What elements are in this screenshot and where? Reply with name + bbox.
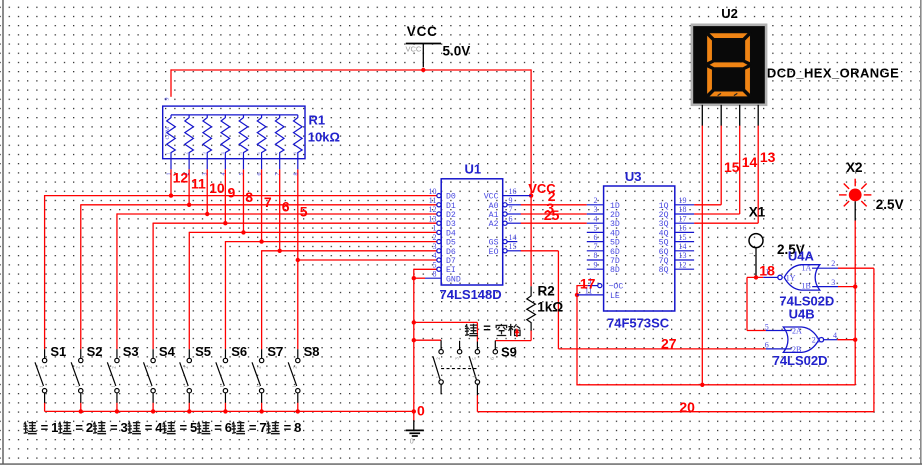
U3 right output stubs: [675, 205, 694, 269]
svg-text:3: 3: [594, 205, 598, 214]
svg-text:14: 14: [509, 233, 517, 242]
U3 left pin numbers: [594, 196, 598, 269]
svg-text:D1: D1: [446, 202, 456, 211]
svg-text:16: 16: [679, 224, 687, 233]
svg-text:7Q: 7Q: [659, 257, 669, 266]
net label 25: [544, 207, 560, 223]
U4A value label 74LS02D: [779, 294, 834, 309]
svg-text:5: 5: [190, 420, 197, 435]
junction U4B output on X2 line: [853, 338, 857, 342]
svg-text:15: 15: [724, 159, 740, 175]
junction display pin1 on bottom bus: [700, 383, 704, 387]
R1 labels: [308, 113, 340, 145]
svg-text:2.5V: 2.5V: [876, 197, 904, 212]
junction U4A 1B on X2 line: [853, 284, 857, 288]
svg-text:D3: D3: [446, 220, 456, 229]
wire net 20: S9 pole to U4A pin2: [477, 268, 874, 412]
svg-text:LE: LE: [610, 292, 620, 301]
junction R1 pin6 to row D5: [259, 239, 263, 243]
junction U1 GND to net0 vertical: [412, 276, 416, 280]
U1 pin16 VCC stub: [503, 195, 531, 197]
svg-text:S4: S4: [159, 344, 176, 359]
U4B pin labels: [765, 323, 837, 354]
svg-text:8: 8: [433, 270, 437, 279]
svg-text:15: 15: [679, 233, 687, 242]
svg-text:13: 13: [760, 149, 776, 165]
svg-text:15: 15: [509, 242, 517, 251]
svg-text:8D: 8D: [610, 266, 620, 275]
resistor R2 1k ohm: [527, 283, 564, 330]
svg-text:12: 12: [429, 205, 437, 214]
R1 pin number 9 (common): [165, 98, 171, 140]
U1 output stubs: [507, 205, 521, 251]
junction U3 LE: [575, 293, 579, 297]
wire net 25: U1 A2 to U3 3D: [521, 222, 587, 224]
svg-text:20: 20: [679, 399, 695, 415]
svg-text:A1: A1: [489, 211, 499, 220]
switch S3 pushbutton: [107, 344, 138, 403]
U1 left pin numbers: [429, 187, 437, 279]
wire net row to U1 D6 from switch S7 column: [262, 250, 437, 252]
svg-text:6: 6: [509, 214, 513, 223]
svg-text:5: 5: [594, 224, 598, 233]
svg-text:1: 1: [433, 224, 437, 233]
junction R1 pin2 to row D1: [187, 203, 191, 207]
svg-text:1: 1: [167, 173, 173, 176]
svg-text:GS: GS: [489, 239, 499, 248]
svg-text:9: 9: [509, 196, 513, 205]
svg-text:6Q: 6Q: [659, 248, 669, 257]
svg-text:2: 2: [86, 420, 93, 435]
svg-text:S8: S8: [304, 344, 320, 359]
wire S8 column vertical: [297, 259, 299, 349]
svg-text:3Q: 3Q: [659, 220, 669, 229]
svg-text:12: 12: [679, 260, 687, 269]
junction U1 pin16 on VCC column: [529, 193, 533, 197]
svg-text:9: 9: [228, 184, 236, 200]
svg-text:16: 16: [509, 187, 517, 196]
wire S3 column vertical: [116, 213, 118, 349]
svg-text:4: 4: [221, 173, 227, 176]
U3 left pin names: [610, 202, 620, 275]
junction R1 pin8 to row D7: [296, 258, 300, 262]
svg-text:1D: 1D: [610, 202, 620, 211]
svg-text:7: 7: [275, 173, 281, 176]
U4B reference label: [789, 306, 815, 321]
wire R1 pin2 pull-up vertical: [188, 169, 190, 205]
svg-text:=: =: [145, 420, 153, 435]
svg-text:1A: 1A: [802, 263, 812, 272]
U3 left input stubs: [587, 205, 604, 269]
wire S7 column vertical: [261, 250, 263, 349]
svg-text:3: 3: [831, 278, 835, 287]
svg-text:D4: D4: [446, 229, 456, 238]
svg-text:D7: D7: [446, 257, 456, 266]
svg-text:4: 4: [433, 251, 437, 260]
net label 5: [300, 203, 308, 219]
svg-text:19: 19: [679, 196, 687, 205]
gate U4B 74LS02D NOR: [766, 327, 837, 352]
switch S5 pushbutton: [180, 344, 211, 403]
U2 reference label: [721, 6, 738, 21]
svg-text:U2: U2: [721, 6, 738, 21]
svg-text:7D: 7D: [610, 257, 620, 266]
svg-text:=: =: [179, 420, 187, 435]
svg-text:13: 13: [679, 251, 687, 260]
svg-text:17: 17: [580, 275, 596, 291]
svg-text:6D: 6D: [610, 248, 620, 257]
wire net 13: U3 3Q to display: [694, 125, 758, 223]
junction R1 pin1 to row D0: [169, 193, 173, 197]
wire net row to U1 D5 from switch S6 column: [225, 241, 436, 243]
U1 value label 74LS148D: [440, 287, 502, 302]
svg-text:6: 6: [282, 199, 290, 215]
resistor network R1 10k ohm: [163, 106, 305, 169]
wire S6 column vertical: [224, 241, 226, 349]
svg-text:4D: 4D: [610, 229, 620, 238]
svg-text:X1: X1: [749, 204, 766, 219]
net label 8: [245, 189, 253, 205]
junctions switch bottoms on net 0 bus: [79, 409, 416, 413]
junction S9 pin2 branch: [412, 338, 416, 342]
svg-text:0: 0: [417, 403, 425, 419]
svg-text:0: 0: [410, 439, 414, 446]
wire net 2: U1 A0 to U3 1D: [521, 204, 587, 206]
svg-text:4: 4: [155, 420, 163, 435]
svg-text:R2: R2: [538, 283, 555, 298]
svg-text:74F573SC: 74F573SC: [607, 316, 670, 331]
junction R1 pin3 to row D2: [205, 212, 209, 216]
wire net 3: U1 A1 to U3 2D: [521, 213, 587, 215]
U3 reference label: [625, 169, 642, 184]
svg-text:GND: GND: [446, 275, 461, 284]
svg-text:2Y: 2Y: [812, 336, 822, 345]
svg-text:3: 3: [121, 420, 128, 435]
op U3 74F573SC latch box: [604, 186, 675, 311]
svg-text:10: 10: [429, 187, 437, 196]
wire S4 column vertical: [152, 223, 154, 350]
display U2 DCD_HEX_ORANGE seven-segment: [692, 25, 766, 105]
wire net 0 branch to S9 pin2: [414, 339, 441, 341]
svg-text:D0: D0: [446, 193, 456, 202]
wire net 0 vertical: U1 EI + GND down to ground: [414, 269, 437, 421]
svg-text:17: 17: [679, 214, 687, 223]
power VCC symbol 5.0V: [406, 24, 471, 67]
net label 18: [759, 262, 775, 278]
wire S5 column vertical: [188, 232, 190, 349]
svg-text:6: 6: [225, 420, 232, 435]
junction R1 pin5 to row D4: [241, 230, 245, 234]
wire net 4: X2 lamp to U4A pin3 and U4B output: [837, 220, 855, 385]
wire net row to U1 D1 from switch S2 column: [81, 204, 437, 206]
wire S2 column vertical: [80, 204, 82, 349]
svg-text:7: 7: [594, 242, 598, 251]
svg-text:2A: 2A: [792, 327, 802, 336]
svg-text:1: 1: [51, 420, 58, 435]
svg-text:2Q: 2Q: [659, 211, 669, 220]
svg-text:2: 2: [433, 233, 437, 242]
svg-text:11: 11: [429, 196, 437, 205]
svg-text:6: 6: [257, 173, 263, 176]
junction X1 lead on net 18: [754, 275, 758, 279]
svg-text:6: 6: [594, 233, 598, 242]
U4A reference label: [788, 249, 815, 264]
svg-text:=: =: [284, 420, 292, 435]
wire R1 pin3 pull-up vertical: [206, 169, 208, 214]
svg-text:4: 4: [594, 214, 598, 223]
net label 3: [546, 200, 554, 216]
wire net row to U1 D2 from switch S3 column: [117, 213, 437, 215]
svg-text:S6: S6: [231, 344, 247, 359]
svg-text:U4B: U4B: [789, 306, 815, 321]
net label 12: [173, 169, 189, 185]
wire R1 pin4 pull-up vertical: [224, 169, 226, 223]
svg-text:=: =: [110, 420, 118, 435]
wire net 27: U1 EO down and right to U4B pin6: [521, 251, 766, 349]
wire R1 pin1 pull-up vertical: [170, 169, 172, 195]
svg-text:5: 5: [765, 323, 769, 332]
svg-text:VCC: VCC: [406, 44, 422, 53]
svg-text:13: 13: [429, 214, 437, 223]
switch S6 pushbutton: [216, 344, 247, 403]
net label 13: [760, 149, 776, 165]
svg-text:DCD_HEX_ORANGE: DCD_HEX_ORANGE: [767, 66, 899, 81]
net label 11: [191, 175, 206, 191]
net label 27: [661, 336, 677, 352]
wire R1 pin5 pull-up vertical: [242, 169, 244, 232]
svg-text:1: 1: [166, 152, 171, 154]
svg-text:D2: D2: [446, 211, 456, 220]
U1 right pin names: [484, 193, 499, 257]
svg-text:=: =: [249, 420, 257, 435]
caption key equals space for S9: [465, 321, 520, 337]
U1 right pin numbers: [509, 187, 517, 251]
wire S1 column vertical: [44, 195, 46, 349]
svg-text:2D: 2D: [610, 211, 620, 220]
gate U4A 74LS02D NOR mirrored: [763, 265, 838, 290]
svg-text:5.0V: 5.0V: [443, 44, 471, 59]
net label 17: [580, 275, 596, 291]
svg-text:7: 7: [264, 194, 272, 210]
svg-text:VCC: VCC: [407, 24, 438, 39]
U3 value label 74F573SC: [607, 316, 670, 331]
svg-text:14: 14: [742, 154, 758, 170]
svg-text:A0: A0: [489, 202, 499, 211]
svg-text:=: =: [214, 420, 222, 435]
wire net row to U1 D4 from switch S5 column: [189, 231, 437, 233]
U3 OC LE pin names: [609, 283, 624, 301]
svg-text:27: 27: [661, 336, 677, 352]
svg-text:=: =: [41, 420, 49, 435]
U1 right pin bubbles A0 A1 A2 GS EO: [503, 203, 507, 253]
net label 6: [282, 199, 290, 215]
svg-text:4: 4: [833, 331, 837, 340]
switch S4 pushbutton: [144, 344, 176, 403]
wire net 18: U4A output to X1 and U4B pin5: [747, 277, 766, 330]
U4A pin labels: [765, 259, 835, 290]
wire VCC bus from R1 common to U1 pin16 column: [171, 69, 532, 286]
U1 reference label: [465, 162, 482, 177]
svg-text:S9: S9: [501, 344, 517, 359]
R1 bottom pin numbers 1-8: [166, 152, 300, 176]
svg-text:X2: X2: [846, 160, 863, 175]
ground symbol net 0: [406, 420, 424, 445]
junction R1 pin7 to row D6: [277, 249, 281, 253]
switch S8 pushbutton: [288, 344, 319, 403]
net label 15: [724, 159, 740, 175]
lamp X1 2.5V off: [749, 204, 805, 275]
wire net row to U1 D0 from switch S1 column: [45, 195, 437, 197]
svg-text:8Q: 8Q: [659, 266, 669, 275]
U1 left pin bubbles D0-D7 EI: [437, 194, 441, 272]
svg-text:S3: S3: [123, 344, 139, 359]
svg-text:5Q: 5Q: [659, 239, 669, 248]
lamp X2 2.5V lit: [839, 160, 904, 220]
svg-text:=: =: [75, 420, 83, 435]
svg-text:3D: 3D: [610, 220, 620, 229]
U3 OC pin bubble and stub: [588, 284, 602, 288]
svg-text:74LS02D: 74LS02D: [773, 353, 828, 368]
svg-text:10: 10: [209, 180, 225, 196]
switch S2 pushbutton: [71, 344, 102, 403]
junction R1 pin4 to row D3: [223, 221, 227, 225]
wire net 14: U3 2Q to display: [694, 125, 740, 214]
svg-text:5: 5: [433, 260, 437, 269]
svg-text:3: 3: [433, 242, 437, 251]
U1 GND stub: [425, 277, 441, 279]
svg-text:5D: 5D: [610, 239, 620, 248]
svg-text:A2: A2: [489, 220, 499, 229]
svg-text:5: 5: [239, 173, 245, 176]
svg-text:74LS148D: 74LS148D: [440, 287, 502, 302]
U3 pin 1 and 11 numbers: [585, 277, 593, 296]
svg-text:U4A: U4A: [788, 249, 815, 264]
net label VCC: [528, 181, 556, 196]
svg-text:18: 18: [679, 205, 687, 214]
wire net 17: U3 OC/LE to bottom bus and display pin: [576, 125, 855, 385]
svg-text:=: =: [483, 321, 491, 336]
svg-text:8: 8: [293, 173, 299, 176]
svg-text:11: 11: [191, 175, 206, 191]
net label 7: [264, 194, 272, 210]
wire net 0 ground bus under switches: [45, 403, 414, 412]
switch S9 space key DPST: [433, 340, 517, 395]
net label 14: [742, 154, 758, 170]
op U1 74LS148D priority encoder box: [441, 179, 503, 285]
svg-text:EI: EI: [446, 266, 456, 275]
net label 20: [679, 399, 695, 415]
svg-text:S1: S1: [50, 344, 66, 359]
wire R1 pin6 pull-up vertical: [261, 169, 263, 241]
svg-text:10kΩ: 10kΩ: [308, 130, 340, 145]
svg-text:18: 18: [759, 262, 775, 278]
svg-text:1Q: 1Q: [659, 202, 669, 211]
wire net 15: U3 1Q to display: [694, 125, 721, 205]
wire net row to U1 D3 from switch S4 column: [153, 222, 437, 224]
wire R1 pin8 pull-up vertical: [297, 169, 299, 260]
net label 10: [209, 180, 225, 196]
svg-text:1Y: 1Y: [786, 273, 796, 282]
svg-text:R1: R1: [309, 113, 326, 128]
switch S7 pushbutton: [252, 344, 283, 403]
svg-text:U1: U1: [465, 162, 482, 177]
svg-text:2: 2: [184, 152, 189, 154]
junction S9 pin5 branch: [412, 320, 416, 324]
U3 right pin names: [659, 202, 669, 275]
net label 0: [417, 403, 425, 419]
svg-text:EO: EO: [489, 248, 499, 257]
svg-text:1B: 1B: [802, 281, 811, 290]
svg-text:S7: S7: [267, 344, 283, 359]
U1 left pin names: [446, 193, 461, 285]
svg-text:6: 6: [765, 340, 769, 349]
svg-text:2: 2: [594, 196, 598, 205]
U3 right pin numbers: [679, 196, 687, 269]
svg-text:14: 14: [679, 242, 687, 251]
U4B value label 74LS02D: [773, 353, 828, 368]
svg-text:9: 9: [165, 98, 171, 101]
svg-text:7: 7: [509, 205, 513, 214]
wire R1 pin7 pull-up vertical: [279, 169, 281, 251]
svg-text:S2: S2: [87, 344, 103, 359]
caption key assignments 1-8: [23, 420, 301, 435]
svg-text:U3: U3: [625, 169, 642, 184]
wire net 0 branch to S9 pin5: [414, 322, 478, 341]
U2 value label DCD_HEX_ORANGE: [767, 66, 899, 81]
svg-text:2: 2: [831, 259, 835, 268]
wire net row to U1 D7 from switch S8 column: [298, 259, 437, 261]
svg-text:VCC: VCC: [484, 193, 499, 202]
net label 2: [548, 188, 556, 204]
wire R2 bottom to S9 pin6: [495, 330, 531, 341]
svg-text:5: 5: [300, 203, 308, 219]
U2 display pins: [702, 105, 758, 126]
svg-text:12: 12: [173, 169, 189, 185]
U3 LE stub: [577, 294, 604, 296]
svg-text:~OC: ~OC: [609, 283, 624, 292]
svg-text:8: 8: [294, 420, 301, 435]
svg-text:D6: D6: [446, 248, 456, 257]
switch S1 pushbutton: [35, 344, 66, 403]
svg-text:8: 8: [594, 251, 598, 260]
svg-text:9: 9: [594, 260, 598, 269]
svg-text:7: 7: [259, 420, 266, 435]
svg-text:1kΩ: 1kΩ: [537, 299, 563, 314]
svg-text:S5: S5: [195, 344, 211, 359]
svg-text:8: 8: [245, 189, 253, 205]
net label 9: [228, 184, 236, 200]
svg-text:4Q: 4Q: [659, 229, 669, 238]
junction VCC symbol to bus: [421, 68, 425, 72]
svg-text:D5: D5: [446, 239, 456, 248]
svg-text:25: 25: [544, 207, 560, 223]
svg-text:COM: COM: [165, 127, 171, 140]
